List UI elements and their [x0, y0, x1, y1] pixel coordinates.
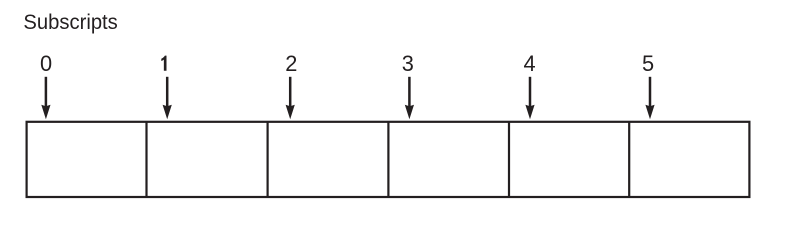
cell divider 5: [628, 122, 630, 197]
arrow 4: [525, 77, 534, 119]
arrow 2: [286, 77, 295, 119]
svg-text:0: 0: [40, 51, 52, 76]
svg-text:5: 5: [642, 51, 654, 76]
svg-text:2: 2: [285, 51, 297, 76]
arrow 0: [41, 77, 50, 119]
array outer box: [27, 122, 750, 197]
svg-text:4: 4: [524, 51, 536, 76]
svg-text:Subscripts: Subscripts: [23, 9, 118, 34]
arrow 1: [163, 77, 172, 119]
cell divider 1: [145, 122, 147, 197]
cell divider 4: [508, 122, 510, 197]
arrow 3: [405, 77, 414, 119]
cell divider 2: [267, 122, 269, 197]
subscript label 1: [161, 56, 166, 71]
svg-text:3: 3: [402, 51, 414, 76]
arrow 5: [645, 77, 654, 119]
cell divider 3: [387, 122, 389, 197]
